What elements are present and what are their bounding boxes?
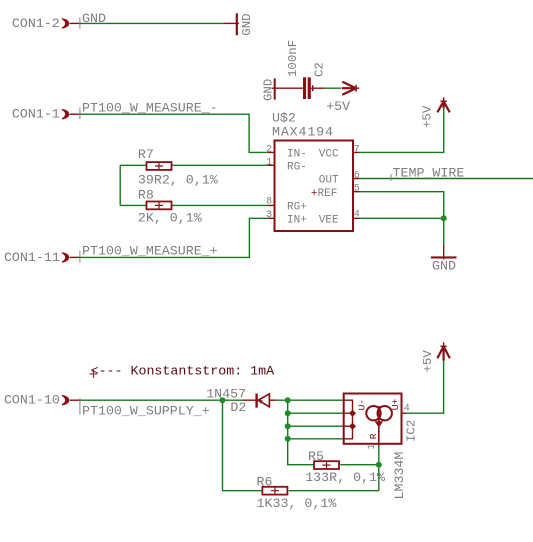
svg-text:U-: U- (356, 399, 367, 411)
svg-text:R: R (368, 433, 379, 439)
svg-text:1K33, 0,1%: 1K33, 0,1% (257, 496, 337, 511)
svg-text:IN+: IN+ (287, 215, 307, 227)
svg-text:100nF: 100nF (286, 40, 300, 77)
svg-text:+5V: +5V (420, 105, 434, 128)
svg-text:U+: U+ (390, 398, 401, 410)
svg-text:IN-: IN- (287, 149, 307, 161)
svg-text:GND: GND (432, 259, 456, 274)
svg-text:OUT: OUT (319, 175, 339, 187)
svg-text:R7: R7 (138, 147, 154, 162)
svg-text:TEMP_WIRE: TEMP_WIRE (393, 165, 465, 180)
svg-text:VEE: VEE (319, 215, 339, 227)
svg-text:LM334M: LM334M (392, 452, 407, 500)
svg-text:4: 4 (404, 404, 410, 415)
svg-text:PT100_W_MEASURE_+: PT100_W_MEASURE_+ (82, 244, 218, 259)
svg-text:7: 7 (354, 144, 360, 155)
svg-text:CON1-1: CON1-1 (12, 107, 60, 122)
svg-text:<--- Konstantstrom: 1mA: <--- Konstantstrom: 1mA (91, 364, 275, 379)
svg-text:MAX4194: MAX4194 (272, 125, 334, 140)
svg-text:R6: R6 (257, 474, 273, 489)
svg-text:RG-: RG- (287, 162, 307, 174)
svg-text:6: 6 (354, 171, 360, 182)
svg-text:8: 8 (266, 197, 272, 208)
svg-text:GND: GND (82, 11, 106, 26)
svg-text:CON1-2: CON1-2 (12, 16, 60, 31)
svg-text:CON1-10: CON1-10 (4, 393, 60, 408)
svg-text:PT100_W_MEASURE_-: PT100_W_MEASURE_- (82, 100, 218, 115)
svg-text:REF: REF (318, 188, 338, 200)
svg-text:2K, 0,1%: 2K, 0,1% (138, 211, 202, 226)
svg-text:RG+: RG+ (287, 202, 307, 214)
svg-text:1: 1 (266, 157, 272, 168)
svg-text:D2: D2 (230, 400, 246, 415)
svg-text:C2: C2 (313, 62, 327, 77)
svg-text:GND: GND (240, 13, 254, 35)
svg-text:GND: GND (261, 79, 275, 101)
svg-text:39R2, 0,1%: 39R2, 0,1% (138, 172, 218, 187)
svg-text:R8: R8 (138, 188, 154, 203)
svg-text:+5V: +5V (421, 350, 435, 373)
svg-text:IC2: IC2 (404, 420, 418, 442)
svg-text:R5: R5 (308, 449, 324, 464)
svg-text:3: 3 (266, 210, 272, 221)
svg-text:2: 2 (266, 144, 272, 155)
svg-text:PT100_W_SUPPLY_+: PT100_W_SUPPLY_+ (82, 403, 210, 418)
svg-text:VCC: VCC (319, 149, 339, 161)
svg-text:133R, 0,1%: 133R, 0,1% (305, 470, 385, 485)
svg-text:5: 5 (354, 184, 360, 195)
svg-text:CON1-11: CON1-11 (4, 250, 60, 265)
svg-text:4: 4 (354, 209, 360, 220)
svg-text:+5V: +5V (326, 99, 350, 114)
svg-text:1: 1 (367, 443, 378, 449)
svg-text:U$2: U$2 (272, 110, 296, 125)
